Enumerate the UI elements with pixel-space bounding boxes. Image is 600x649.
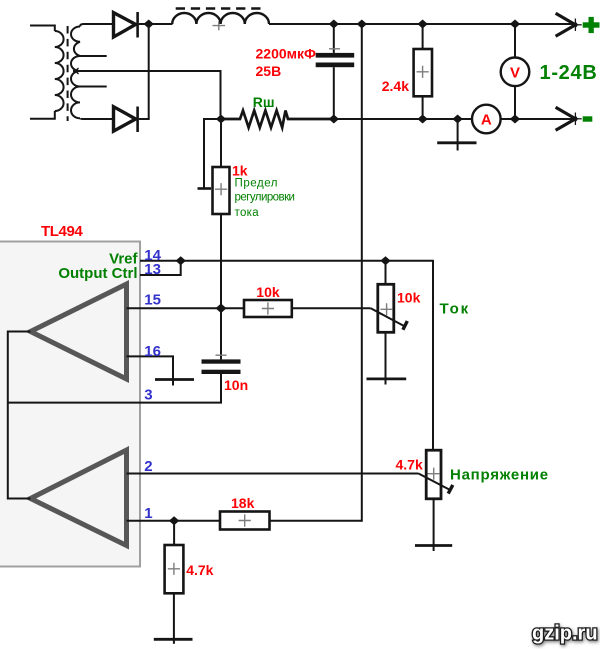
capacitor C1 2200uF bbox=[316, 24, 355, 119]
resistor Rsh shunt bbox=[221, 111, 334, 128]
svg-text:4.7k: 4.7k bbox=[186, 562, 213, 578]
svg-text:1k: 1k bbox=[232, 162, 248, 178]
svg-text:1-24В: 1-24В bbox=[540, 62, 598, 84]
junction dot sense node top bbox=[357, 20, 367, 29]
ground 10k pot bbox=[367, 377, 407, 380]
junction dot voltmeter top bbox=[510, 20, 520, 29]
svg-text:10k: 10k bbox=[397, 290, 421, 306]
junction dot Vref to 10k pot bbox=[380, 256, 390, 265]
ground 4.7k pot bbox=[415, 544, 452, 547]
svg-text:1: 1 bbox=[144, 505, 152, 522]
svg-text:25В: 25В bbox=[256, 63, 282, 79]
wire pin 15 bbox=[127, 307, 245, 309]
terminal + output bbox=[556, 13, 582, 36]
wire amp1 output to feedback bus bbox=[8, 332, 31, 499]
svg-text:10k: 10k bbox=[256, 284, 280, 300]
svg-text:18k: 18k bbox=[231, 495, 255, 511]
junction node A bbox=[144, 20, 154, 29]
resistor R6 4.7k bbox=[165, 521, 184, 644]
svg-text:2: 2 bbox=[144, 458, 152, 475]
wire minus rail bbox=[334, 118, 472, 120]
wire top rail bbox=[269, 23, 573, 25]
svg-text:gzip.ru: gzip.ru bbox=[532, 623, 598, 645]
op-amp error amplifier 1 bbox=[31, 284, 127, 379]
svg-text:15: 15 bbox=[144, 292, 161, 309]
transformer T1 core bbox=[67, 26, 69, 121]
svg-text:Output Ctrl: Output Ctrl bbox=[58, 265, 137, 282]
capacitor C2 10n bbox=[202, 308, 241, 402]
wire pin 3 feedback bbox=[8, 374, 221, 403]
svg-text:TL494: TL494 bbox=[41, 223, 83, 240]
ammeter A bbox=[472, 105, 501, 134]
wire node A to inductor bbox=[149, 23, 173, 25]
svg-text:Ток: Ток bbox=[440, 300, 471, 317]
junction dot pin15 node bbox=[216, 304, 227, 314]
svg-text:13: 13 bbox=[144, 261, 161, 278]
svg-text:V: V bbox=[510, 64, 520, 81]
label plus bbox=[583, 17, 600, 33]
transformer T1 secondary winding bbox=[71, 24, 114, 119]
junction dot cap node top bbox=[329, 20, 339, 29]
wire pin 16 bbox=[127, 356, 174, 385]
svg-text:тока: тока bbox=[235, 207, 260, 219]
junction dot voltmeter bottom bbox=[510, 115, 520, 124]
svg-text:A: A bbox=[481, 112, 492, 129]
junction dot cap node bottom bbox=[329, 115, 339, 124]
op-amp error amplifier 2 bbox=[31, 450, 127, 546]
svg-text:регулировки: регулировки bbox=[235, 192, 295, 204]
svg-text:3: 3 bbox=[144, 386, 152, 403]
junction dot 2.4k top bbox=[417, 20, 427, 29]
resistor R2 10k bbox=[244, 300, 292, 317]
svg-text:Rш: Rш bbox=[253, 94, 275, 110]
diode D1 bbox=[114, 12, 150, 38]
potentiometer R4 4.7k (voltage) bbox=[419, 450, 453, 551]
diode D2 bbox=[114, 107, 150, 133]
svg-text:Предел: Предел bbox=[235, 177, 279, 189]
label minus bbox=[583, 116, 593, 121]
wire pin 2 bbox=[127, 473, 419, 475]
wire 1k pot to pin15 node bbox=[220, 214, 222, 308]
svg-text:Напряжение: Напряжение bbox=[450, 467, 549, 484]
secondary tap stub lower bbox=[79, 86, 107, 88]
svg-text:2.4k: 2.4k bbox=[382, 78, 409, 94]
potentiometer R3 10k (current) bbox=[371, 261, 408, 385]
junction dot ground stub bbox=[452, 115, 462, 124]
wire center tap to Rsh node bbox=[73, 68, 221, 119]
junction dot Rsh node bbox=[216, 115, 226, 124]
wire 10k resistor to pot wiper bbox=[292, 307, 371, 309]
voltmeter V bbox=[501, 24, 530, 119]
secondary tap stub upper bbox=[79, 55, 107, 57]
wire pin 14 Vref net bbox=[140, 261, 433, 451]
potentiometer R1 1k bbox=[198, 119, 230, 214]
wire pin 1 bbox=[127, 520, 221, 522]
junction dot pin1 node bbox=[169, 516, 179, 525]
wire pin 13 to pin 14 bbox=[140, 261, 181, 275]
ground output common bbox=[437, 119, 476, 151]
wire 18k to +V sense bbox=[270, 520, 362, 522]
resistor R7 2.4k bbox=[414, 24, 432, 119]
wire D2 cathode up to node A bbox=[148, 24, 150, 119]
junction dot 2.4k bottom bbox=[417, 115, 427, 124]
transformer T1 primary winding bbox=[30, 26, 64, 119]
svg-text:10n: 10n bbox=[224, 377, 248, 393]
junction dot pins 13-14 bbox=[176, 256, 186, 265]
inductor L1 bbox=[172, 9, 269, 31]
svg-text:4.7k: 4.7k bbox=[396, 456, 423, 472]
TL494 IC body bbox=[0, 242, 140, 567]
svg-text:2200мкФ: 2200мкФ bbox=[256, 45, 317, 61]
wire +V sense vertical bbox=[361, 24, 363, 522]
ground pin 16 bbox=[155, 378, 194, 381]
svg-text:16: 16 bbox=[144, 343, 161, 360]
terminal - output bbox=[556, 107, 582, 130]
ground 4.7k resistor bbox=[154, 638, 193, 641]
resistor R5 18k bbox=[220, 512, 270, 530]
